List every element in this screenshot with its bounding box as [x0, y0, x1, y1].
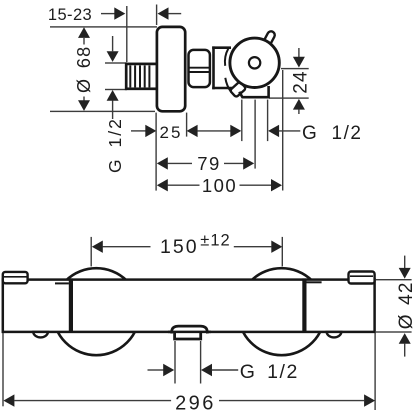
- svg-text:24: 24: [291, 70, 312, 94]
- dimension G 1/2 right text: [302, 123, 362, 144]
- dimension dia 42 upper arrow (points down): [399, 256, 411, 279]
- dimension 100 right arrow: [240, 179, 283, 191]
- dimension 25 text: [160, 123, 183, 142]
- handle (side view circle): [230, 38, 279, 87]
- dimension G 1/2 bottom left arrow (points right): [148, 364, 175, 376]
- bottom outlet rim G 1/2: [175, 333, 201, 339]
- flow lever: [230, 81, 246, 97]
- dimension 150 +-12 extension line right: [282, 237, 283, 267]
- svg-text:100: 100: [202, 175, 237, 196]
- extension line wall face top: [156, 5, 157, 26]
- bar bottom edge over dome: [168, 331, 211, 334]
- dimension 150 left arrow: [92, 241, 151, 253]
- svg-text:25: 25: [160, 123, 183, 142]
- extension line outlet centerline: [254, 100, 255, 169]
- bottom outlet dome: [171, 326, 207, 333]
- dimension 24 lower arrow (points up): [293, 99, 305, 114]
- dimension 79 left arrow: [157, 157, 192, 169]
- extension line outlet left edge: [241, 100, 242, 142]
- dimension 100 text: [202, 175, 237, 196]
- extension line thread end: [126, 6, 127, 62]
- dimension 100 left arrow: [157, 179, 200, 191]
- left check-valve bump: [33, 332, 48, 338]
- extension line thread top (for G 1/2): [105, 62, 127, 63]
- dimension dia 68 text: [74, 46, 94, 93]
- mixer bar body: [3, 280, 375, 332]
- extension line escutcheon left face (below, for 25/79/100): [155, 113, 156, 191]
- dimension G 1/2 left text: [105, 117, 125, 173]
- left wall escutcheon circle: [53, 268, 140, 355]
- threaded nipple G 1/2: [126, 64, 157, 89]
- svg-text:G 1/2: G 1/2: [302, 123, 362, 144]
- dimension 296 extension line right: [374, 333, 375, 410]
- dimension G 1/2 right: arrow pointing right at outlet left edge: [230, 125, 241, 137]
- dimension G 1/2 bottom: extension line left: [174, 341, 175, 384]
- dimension 15-23 line left arrow (points right at thread end): [101, 7, 125, 19]
- extension line outlet bottom right (for 24): [269, 97, 309, 98]
- extension line escutcheon bottom (for dia 68): [50, 111, 155, 112]
- extension line valve axis right (for 24): [281, 68, 309, 69]
- right union nut tick: [307, 281, 322, 283]
- wall escutcheon (side view): [157, 27, 185, 111]
- dimension 79 right arrow: [224, 157, 254, 169]
- dimension 24 text: [291, 70, 312, 94]
- dimension 296 left arrow: [3, 394, 171, 406]
- temperature ring petal bottom: [225, 78, 231, 93]
- right check-valve bump: [327, 332, 342, 338]
- dimension 296 extension line left: [2, 333, 3, 406]
- dimension dia 42 extension line top: [376, 279, 412, 280]
- svg-text:15-23: 15-23: [48, 6, 92, 24]
- dimension dia 42 lower arrow (points up): [399, 333, 411, 357]
- dimension 296 text: [175, 392, 216, 414]
- dimension G 1/2 bottom: extension line right: [200, 341, 201, 384]
- svg-text:Ø 42: Ø 42: [396, 281, 416, 329]
- dimension 25 right arrow (points left at escutcheon right face) + shared tail: [187, 125, 231, 137]
- temperature ring petal top: [225, 49, 228, 66]
- dimension G 1/2 bottom right arrow (points left): [201, 364, 238, 376]
- svg-text:G 1/2: G 1/2: [240, 361, 299, 383]
- dimension dia 68 lower arrow: [78, 97, 90, 111]
- svg-text:±12: ±12: [200, 232, 230, 250]
- right union seam: [302, 278, 306, 332]
- dimension dia 42 extension line bottom: [376, 331, 412, 332]
- left end block: [3, 272, 28, 283]
- handle center cap: [249, 57, 260, 68]
- dimension G 1/2 left upper arrow (points down): [107, 36, 119, 62]
- dimension 296 right arrow: [219, 394, 375, 406]
- right wall escutcheon circle: [238, 268, 325, 355]
- outlet boot: [239, 86, 268, 97]
- extension line escutcheon top (for dia 68): [50, 26, 157, 27]
- dimension G 1/2 bottom text: [240, 361, 299, 383]
- dimension 25 row: left arrow points right at wall face: [131, 125, 156, 137]
- dimension 150 +-12 extension line left: [91, 237, 92, 267]
- valve body: [212, 46, 235, 89]
- dimension 150 text: [160, 232, 231, 258]
- left union nut tick: [55, 282, 69, 284]
- extension line handle front: [282, 70, 283, 191]
- svg-text:Ø 68: Ø 68: [74, 46, 94, 93]
- svg-text:79: 79: [197, 153, 221, 174]
- dimension 150 right arrow: [234, 241, 283, 253]
- dimension 79 text: [197, 153, 221, 174]
- svg-text:296: 296: [175, 392, 216, 414]
- dimension 24 upper arrow (points down): [293, 48, 305, 68]
- extension line outlet right edge: [267, 100, 268, 142]
- dimension dia 68 upper arrow: [78, 27, 90, 44]
- left union seam: [69, 278, 73, 332]
- dimension G 1/2 right: arrow pointing left at outlet right edge: [268, 125, 300, 137]
- extension line thread bottom (for G 1/2): [105, 89, 127, 90]
- dimension 15-23 text: [48, 6, 92, 24]
- union nut: [189, 50, 210, 87]
- dimension dia 42 text: [396, 281, 416, 329]
- dimension G 1/2 left lower arrow (points up): [107, 90, 119, 119]
- svg-text:G 1/2: G 1/2: [105, 117, 125, 173]
- extension line escutcheon right face: [186, 113, 187, 137]
- right end block: [349, 272, 375, 284]
- handle grip nub: [262, 30, 277, 48]
- svg-text:150: 150: [160, 236, 199, 258]
- dimension 15-23 right arrow (points left at wall face): [158, 7, 182, 19]
